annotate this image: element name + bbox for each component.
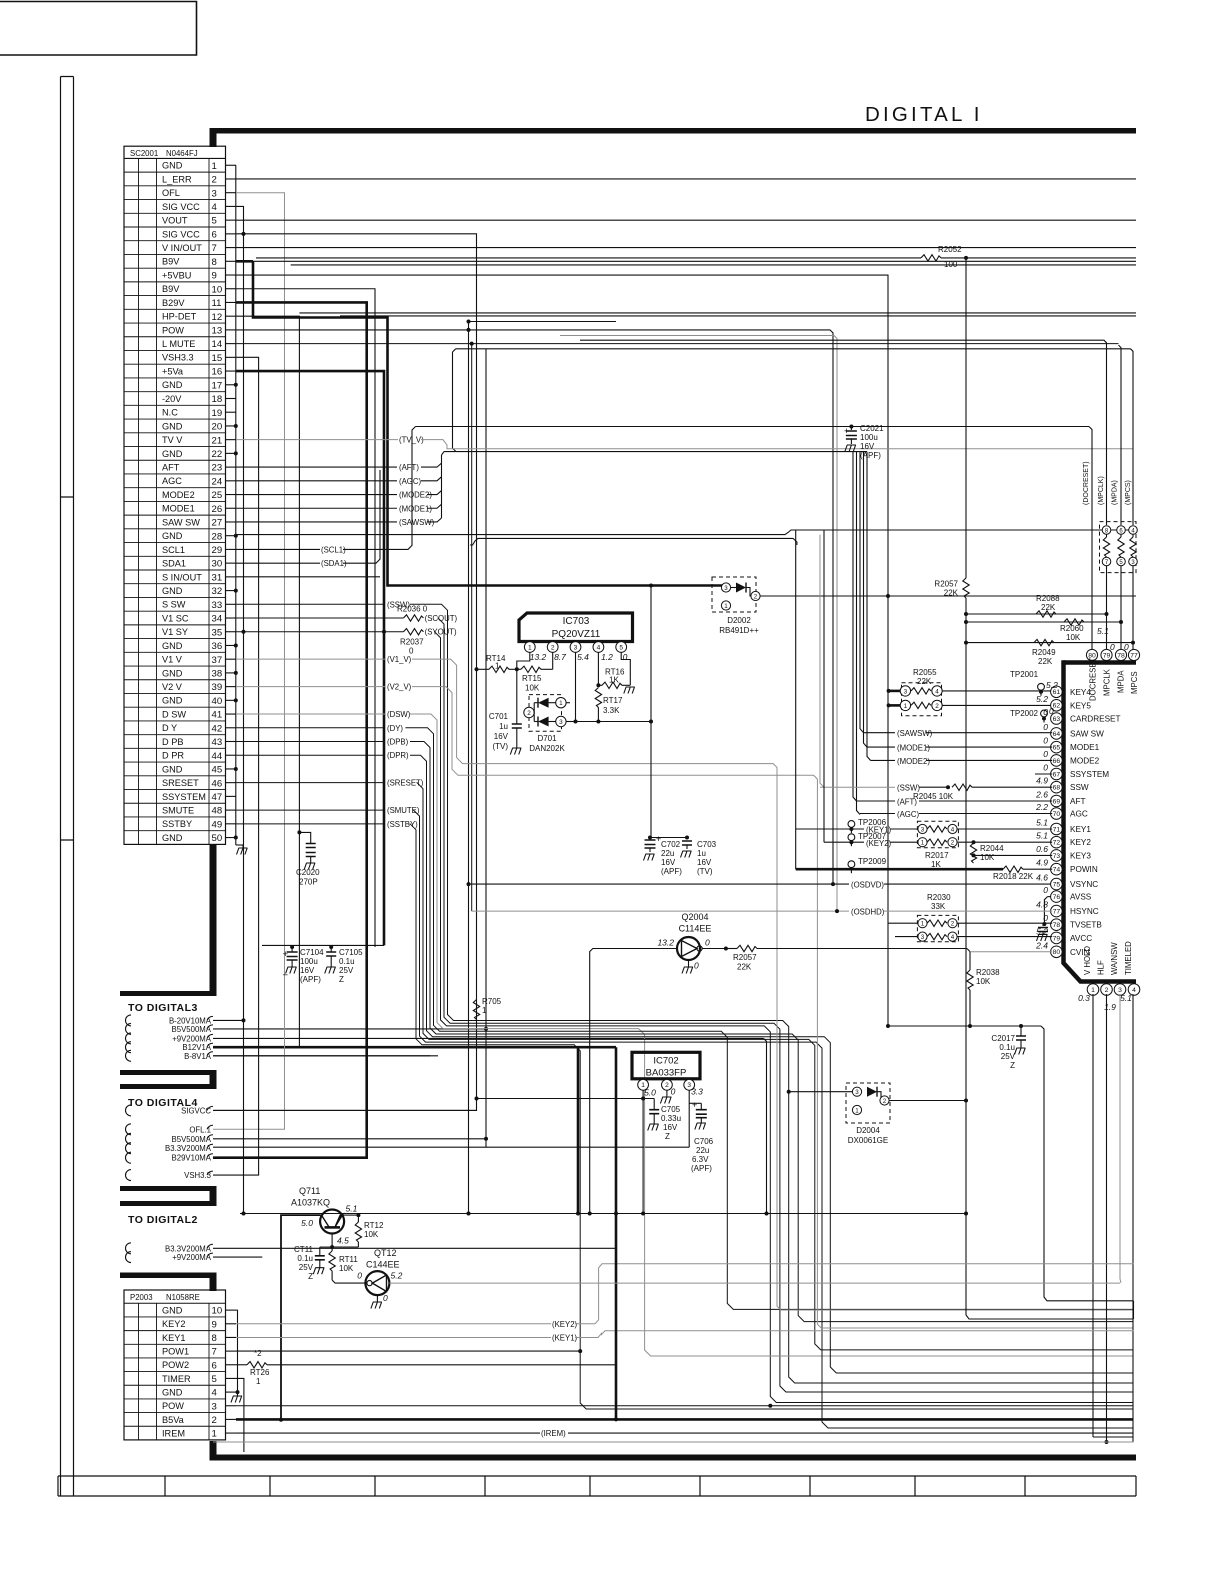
svg-text:MODE1: MODE1: [1070, 743, 1100, 752]
svg-text:−: −: [283, 970, 289, 981]
svg-text:10K: 10K: [980, 853, 995, 862]
svg-text:DX0061GE: DX0061GE: [848, 1136, 888, 1145]
svg-text:22K: 22K: [1041, 603, 1056, 612]
svg-text:64: 64: [1053, 731, 1061, 738]
svg-text:Q711: Q711: [299, 1186, 320, 1196]
svg-text:26: 26: [212, 504, 223, 515]
svg-text:TIMELED: TIMELED: [1124, 941, 1133, 975]
svg-text:TP2001: TP2001: [1010, 670, 1039, 679]
svg-text:V HOLD: V HOLD: [1083, 946, 1092, 975]
svg-text:3: 3: [212, 188, 217, 199]
svg-text:13.2: 13.2: [657, 938, 674, 948]
svg-text:SRESET: SRESET: [162, 778, 199, 788]
svg-text:R2030: R2030: [927, 893, 951, 902]
svg-text:(MPDA): (MPDA): [1112, 480, 1119, 505]
svg-text:72: 72: [1053, 840, 1061, 847]
svg-text:25V: 25V: [339, 966, 354, 975]
svg-text:1: 1: [724, 603, 728, 610]
svg-text:GND: GND: [162, 531, 183, 541]
svg-text:42: 42: [212, 723, 223, 734]
svg-text:L_ERR: L_ERR: [162, 174, 192, 184]
svg-text:19: 19: [212, 408, 223, 419]
svg-text:14: 14: [212, 339, 223, 350]
svg-text:69: 69: [1053, 798, 1061, 805]
svg-text:0: 0: [1043, 736, 1048, 746]
svg-text:10: 10: [212, 1306, 223, 1317]
svg-text:36: 36: [212, 641, 223, 652]
svg-text:AFT: AFT: [1070, 797, 1085, 806]
svg-text:(AFT): (AFT): [897, 798, 917, 807]
svg-text:2: 2: [665, 1082, 669, 1089]
svg-text:+9V200MA: +9V200MA: [172, 1034, 212, 1043]
svg-text:10K: 10K: [525, 684, 540, 693]
svg-text:0: 0: [694, 961, 699, 971]
svg-text:1: 1: [855, 1107, 859, 1114]
svg-text:D PB: D PB: [162, 737, 183, 747]
svg-text:70: 70: [1053, 811, 1061, 818]
svg-text:0.1u: 0.1u: [999, 1043, 1015, 1052]
svg-text:C2017: C2017: [991, 1034, 1015, 1043]
svg-text:AVSS: AVSS: [1070, 893, 1092, 902]
svg-text:GND: GND: [162, 1387, 183, 1397]
svg-text:R2060: R2060: [1060, 624, 1084, 633]
svg-text:2: 2: [527, 710, 531, 717]
svg-text:C114EE: C114EE: [679, 924, 712, 934]
svg-text:0: 0: [1043, 763, 1048, 773]
svg-text:1.9: 1.9: [1104, 1002, 1116, 1012]
svg-text:25V: 25V: [299, 1263, 314, 1272]
svg-text:(MODE2): (MODE2): [897, 757, 930, 766]
svg-text:Z: Z: [1010, 1061, 1015, 1070]
svg-text:5.1: 5.1: [1036, 818, 1048, 828]
svg-text:7: 7: [212, 1347, 217, 1358]
svg-text:5.2: 5.2: [1046, 680, 1058, 690]
svg-text:270P: 270P: [299, 878, 318, 887]
svg-text:1: 1: [495, 662, 500, 671]
svg-text:2.6: 2.6: [1035, 790, 1048, 800]
svg-text:V1 V: V1 V: [162, 655, 183, 665]
svg-text:5.1: 5.1: [1097, 626, 1109, 636]
svg-text:100u: 100u: [300, 957, 318, 966]
svg-text:RT15: RT15: [522, 674, 542, 683]
svg-text:9: 9: [212, 271, 217, 282]
svg-text:20: 20: [212, 422, 223, 433]
svg-text:N1058RE: N1058RE: [166, 1293, 200, 1302]
svg-text:0: 0: [409, 647, 414, 656]
svg-text:(AGC): (AGC): [897, 810, 919, 819]
svg-text:4.5: 4.5: [337, 1236, 349, 1246]
svg-text:TIMER: TIMER: [162, 1374, 191, 1384]
svg-text:KEY2: KEY2: [1070, 838, 1091, 847]
svg-text:N.C: N.C: [162, 408, 178, 418]
svg-text:DIGITAL I: DIGITAL I: [865, 103, 983, 126]
svg-text:(TV): (TV): [697, 867, 713, 876]
svg-text:5: 5: [212, 1374, 217, 1385]
svg-text:BA033FP: BA033FP: [646, 1068, 687, 1079]
svg-text:10: 10: [212, 284, 223, 295]
svg-text:67: 67: [1053, 771, 1061, 778]
svg-text:12: 12: [212, 312, 223, 323]
svg-text:10K: 10K: [976, 977, 991, 986]
svg-text:AVCC: AVCC: [1070, 934, 1092, 943]
svg-text:1: 1: [212, 1429, 217, 1440]
svg-text:3: 3: [921, 826, 925, 833]
svg-text:13.2: 13.2: [530, 652, 547, 662]
svg-text:5: 5: [619, 644, 623, 651]
svg-text:C7105: C7105: [339, 948, 363, 957]
svg-text:79: 79: [1053, 935, 1061, 942]
svg-text:3: 3: [559, 719, 563, 726]
svg-text:4.9: 4.9: [1036, 776, 1048, 786]
svg-text:16V: 16V: [860, 442, 875, 451]
svg-text:AGC: AGC: [162, 476, 182, 486]
svg-text:IREM: IREM: [162, 1428, 185, 1438]
svg-text:22K: 22K: [917, 677, 932, 686]
svg-text:C7104: C7104: [300, 948, 324, 957]
svg-text:2: 2: [951, 921, 955, 928]
svg-text:(IREM): (IREM): [541, 1429, 566, 1438]
svg-text:5.4: 5.4: [577, 652, 589, 662]
svg-text:GND: GND: [162, 1306, 183, 1316]
svg-text:0.6: 0.6: [1036, 844, 1048, 854]
svg-text:POW1: POW1: [162, 1347, 189, 1357]
svg-text:TO DIGITAL3: TO DIGITAL3: [128, 1002, 198, 1014]
svg-text:(AFT): (AFT): [399, 463, 419, 472]
svg-text:0: 0: [1043, 885, 1048, 895]
svg-text:35: 35: [212, 627, 223, 638]
svg-text:10K: 10K: [364, 1230, 379, 1239]
svg-text:(SCL1): (SCL1): [321, 545, 346, 554]
svg-text:S SW: S SW: [162, 600, 186, 610]
svg-text:MODE2: MODE2: [1070, 756, 1100, 765]
svg-text:0: 0: [357, 1271, 362, 1281]
svg-text:V IN/OUT: V IN/OUT: [162, 243, 202, 253]
svg-text:4.8: 4.8: [1036, 900, 1048, 910]
svg-text:0.1u: 0.1u: [339, 957, 355, 966]
svg-text:R2049: R2049: [1032, 648, 1056, 657]
svg-text:VSH3.3: VSH3.3: [162, 353, 194, 363]
svg-text:32: 32: [212, 586, 223, 597]
svg-text:100u: 100u: [860, 433, 878, 442]
svg-text:39: 39: [212, 682, 223, 693]
svg-text:(DOCRESET): (DOCRESET): [1083, 461, 1090, 505]
svg-text:QT12: QT12: [374, 1248, 397, 1258]
svg-text:(SYOUT): (SYOUT): [425, 628, 457, 637]
svg-text:B5V500MA: B5V500MA: [172, 1025, 212, 1034]
svg-text:CT11: CT11: [294, 1245, 314, 1254]
svg-text:4: 4: [951, 826, 955, 833]
svg-text:(KEY2): (KEY2): [552, 1320, 578, 1329]
svg-text:1: 1: [904, 703, 908, 710]
svg-text:5.0: 5.0: [644, 1088, 656, 1098]
svg-text:18: 18: [212, 394, 223, 405]
svg-text:GND: GND: [162, 380, 183, 390]
svg-text:1: 1: [921, 921, 925, 928]
svg-text:B3.3V200MA: B3.3V200MA: [165, 1144, 212, 1153]
svg-text:16V: 16V: [663, 1123, 678, 1132]
svg-text:OFL: OFL: [162, 188, 180, 198]
svg-text:49: 49: [212, 819, 223, 830]
svg-text:Z: Z: [339, 975, 344, 984]
svg-text:34: 34: [212, 614, 223, 625]
svg-text:(MODE1): (MODE1): [897, 744, 930, 753]
svg-text:16: 16: [212, 367, 223, 378]
svg-text:3: 3: [724, 585, 728, 592]
svg-text:4: 4: [935, 688, 939, 695]
svg-text:6: 6: [212, 1360, 217, 1371]
svg-text:2: 2: [551, 644, 555, 651]
svg-text:DAN202K: DAN202K: [529, 744, 565, 753]
svg-text:GND: GND: [162, 668, 183, 678]
svg-text:SIG VCC: SIG VCC: [162, 202, 200, 212]
svg-text:R2055: R2055: [913, 668, 937, 677]
svg-text:AGC: AGC: [1070, 810, 1088, 819]
svg-text:71: 71: [1053, 826, 1061, 833]
svg-text:R2057: R2057: [934, 580, 958, 589]
svg-text:B5V500MA: B5V500MA: [172, 1135, 212, 1144]
svg-text:C702: C702: [661, 840, 681, 849]
svg-text:1: 1: [559, 700, 563, 707]
svg-text:SC2001: SC2001: [130, 149, 158, 158]
svg-text:78: 78: [1117, 652, 1125, 659]
svg-text:40: 40: [212, 696, 223, 707]
svg-text:(OSDHD): (OSDHD): [851, 907, 885, 916]
svg-text:B9V: B9V: [162, 284, 180, 294]
svg-text:6: 6: [212, 229, 217, 240]
svg-text:SMUTE: SMUTE: [162, 806, 194, 816]
svg-text:Z: Z: [665, 1132, 670, 1141]
svg-text:MODE1: MODE1: [162, 504, 195, 514]
svg-text:SSYSTEM: SSYSTEM: [1070, 770, 1109, 779]
svg-text:46: 46: [212, 778, 223, 789]
svg-text:2.2: 2.2: [1035, 802, 1048, 812]
svg-text:D PR: D PR: [162, 751, 184, 761]
svg-text:C144EE: C144EE: [366, 1260, 400, 1270]
svg-text:25V: 25V: [1001, 1052, 1016, 1061]
svg-text:1K: 1K: [609, 676, 619, 685]
svg-text:R2037: R2037: [400, 638, 424, 647]
svg-text:78: 78: [1053, 922, 1061, 929]
svg-text:GND: GND: [162, 586, 183, 596]
svg-text:5.1: 5.1: [1036, 831, 1048, 841]
svg-text:45: 45: [212, 765, 223, 776]
svg-text:TP2007: TP2007: [858, 832, 887, 841]
svg-text:TO DIGITAL2: TO DIGITAL2: [128, 1214, 198, 1226]
svg-text:27: 27: [212, 518, 223, 529]
svg-text:28: 28: [212, 531, 223, 542]
svg-text:2: 2: [951, 840, 955, 847]
svg-text:+5Va: +5Va: [162, 366, 184, 376]
svg-text:RT12: RT12: [364, 1221, 384, 1230]
svg-text:GND: GND: [162, 696, 183, 706]
svg-text:22u: 22u: [696, 1146, 709, 1155]
svg-text:22K: 22K: [944, 589, 959, 598]
svg-text:0: 0: [383, 1293, 388, 1303]
svg-text:IC703: IC703: [563, 616, 590, 627]
svg-text:SAW SW: SAW SW: [1070, 729, 1104, 738]
svg-text:48: 48: [212, 806, 223, 817]
svg-text:POWIN: POWIN: [1070, 865, 1098, 874]
svg-text:16V: 16V: [697, 858, 712, 867]
svg-text:(MPCS): (MPCS): [1125, 480, 1132, 505]
svg-text:68: 68: [1053, 785, 1061, 792]
svg-text:TVSETB: TVSETB: [1070, 921, 1102, 930]
svg-text:16V: 16V: [300, 966, 315, 975]
svg-text:KEY2: KEY2: [162, 1319, 186, 1329]
svg-text:4: 4: [212, 1388, 218, 1399]
svg-text:8: 8: [212, 1333, 217, 1344]
svg-text:9: 9: [212, 1319, 217, 1330]
svg-text:(DSW): (DSW): [387, 710, 411, 719]
svg-text:(TV): (TV): [492, 742, 508, 751]
svg-text:30: 30: [212, 559, 223, 570]
svg-text:D SW: D SW: [162, 709, 186, 719]
svg-text:5: 5: [212, 216, 217, 227]
svg-text:+5VBU: +5VBU: [162, 270, 191, 280]
svg-text:11: 11: [212, 298, 222, 309]
svg-text:(V2_V): (V2_V): [387, 683, 412, 692]
svg-text:(MPCLK): (MPCLK): [1098, 476, 1105, 505]
svg-text:SIGVCC: SIGVCC: [181, 1106, 211, 1115]
svg-text:D701: D701: [537, 734, 557, 743]
svg-text:D2002: D2002: [727, 616, 751, 625]
svg-text:R705: R705: [482, 997, 502, 1006]
svg-text:10K: 10K: [1066, 633, 1081, 642]
svg-text:B5Va: B5Va: [162, 1415, 185, 1425]
svg-text:66: 66: [1053, 758, 1061, 765]
svg-text:3.3K: 3.3K: [603, 706, 620, 715]
svg-text:P2003: P2003: [130, 1293, 153, 1302]
svg-text:61: 61: [1053, 689, 1061, 696]
svg-text:R2057: R2057: [733, 953, 757, 962]
svg-text:(V1_V): (V1_V): [387, 655, 412, 664]
svg-text:R2036 0: R2036 0: [397, 605, 428, 614]
svg-text:HP-DET: HP-DET: [162, 312, 197, 322]
svg-text:GND: GND: [162, 421, 183, 431]
svg-text:TP2006: TP2006: [858, 818, 887, 827]
svg-text:B29V: B29V: [162, 298, 185, 308]
svg-text:KEY1: KEY1: [162, 1333, 186, 1343]
svg-text:4: 4: [597, 644, 601, 651]
svg-text:C701: C701: [489, 712, 509, 721]
svg-text:AFT: AFT: [162, 463, 180, 473]
svg-text:7: 7: [212, 243, 217, 254]
svg-text:(KEY1): (KEY1): [552, 1333, 578, 1342]
svg-text:RT17: RT17: [603, 696, 623, 705]
svg-text:KEY3: KEY3: [1070, 851, 1091, 860]
svg-text:0: 0: [623, 652, 628, 662]
svg-text:VSH3.3: VSH3.3: [184, 1171, 211, 1180]
svg-text:5.2: 5.2: [1036, 694, 1048, 704]
svg-text:R2044: R2044: [980, 844, 1004, 853]
svg-text:0.33u: 0.33u: [661, 1114, 681, 1123]
svg-text:(DY): (DY): [387, 724, 403, 733]
svg-text:C2021: C2021: [860, 424, 884, 433]
svg-text:TP2009: TP2009: [858, 857, 887, 866]
svg-text:2: 2: [935, 703, 939, 710]
svg-text:R2045 10K: R2045 10K: [913, 792, 954, 801]
svg-text:16V: 16V: [494, 732, 509, 741]
svg-text:1u: 1u: [499, 722, 508, 731]
svg-text:PQ20VZ11: PQ20VZ11: [552, 629, 601, 640]
svg-text:47: 47: [212, 792, 223, 803]
svg-text:A1037KQ: A1037KQ: [291, 1198, 330, 1208]
svg-text:1: 1: [921, 840, 925, 847]
svg-text:23: 23: [212, 463, 223, 474]
svg-text:+9V200MA: +9V200MA: [172, 1253, 212, 1262]
svg-text:0: 0: [1043, 749, 1048, 759]
svg-text:(SMUTE): (SMUTE): [387, 806, 420, 815]
svg-text:B3.3V200MA: B3.3V200MA: [165, 1244, 212, 1253]
svg-text:RB491D++: RB491D++: [719, 626, 759, 635]
svg-text:GND: GND: [162, 161, 183, 171]
svg-text:21: 21: [212, 435, 223, 446]
svg-text:0.1u: 0.1u: [297, 1254, 313, 1263]
svg-text:RT11: RT11: [339, 1255, 358, 1264]
svg-text:1: 1: [1091, 987, 1095, 994]
svg-text:17: 17: [212, 380, 223, 391]
svg-text:HSYNC: HSYNC: [1070, 907, 1099, 916]
svg-text:2: 2: [883, 1098, 887, 1105]
svg-text:MPCLK: MPCLK: [1103, 668, 1112, 696]
svg-text:77: 77: [1053, 909, 1061, 916]
svg-text:79: 79: [1103, 652, 1111, 659]
svg-text:RT26: RT26: [250, 1368, 270, 1377]
svg-text:1.2: 1.2: [601, 652, 613, 662]
svg-text:GND: GND: [162, 449, 183, 459]
svg-text:KEY5: KEY5: [1070, 701, 1091, 710]
svg-text:MPDA: MPDA: [1117, 670, 1126, 693]
svg-text:D2004: D2004: [856, 1126, 880, 1135]
svg-text:16V: 16V: [661, 858, 676, 867]
svg-text:R2017: R2017: [925, 851, 949, 860]
svg-text:5.1: 5.1: [346, 1204, 358, 1214]
svg-text:(SRESET): (SRESET): [387, 779, 424, 788]
svg-text:GND: GND: [162, 764, 183, 774]
svg-text:SSTBY: SSTBY: [162, 819, 192, 829]
svg-text:SSW: SSW: [1070, 783, 1089, 792]
svg-text:SCL1: SCL1: [162, 545, 185, 555]
svg-text:6.3V: 6.3V: [692, 1155, 709, 1164]
svg-text:15: 15: [212, 353, 223, 364]
svg-text:B9V: B9V: [162, 257, 180, 267]
svg-text:4.9: 4.9: [1036, 858, 1048, 868]
svg-text:B-8V1A: B-8V1A: [184, 1052, 212, 1061]
svg-text:R2088: R2088: [1036, 594, 1060, 603]
svg-text:D Y: D Y: [162, 723, 177, 733]
svg-text:37: 37: [212, 655, 223, 666]
svg-text:31: 31: [212, 572, 223, 583]
svg-text:0: 0: [1049, 706, 1054, 716]
svg-text:5.1: 5.1: [1120, 993, 1132, 1003]
svg-text:*2: *2: [254, 1349, 262, 1358]
svg-text:0: 0: [1043, 722, 1048, 732]
svg-text:33K: 33K: [931, 902, 946, 911]
svg-text:50: 50: [212, 833, 223, 844]
svg-text:4: 4: [951, 934, 955, 941]
svg-text:75: 75: [1053, 882, 1061, 889]
svg-text:VSYNC: VSYNC: [1070, 880, 1098, 889]
svg-text:63: 63: [1053, 716, 1061, 723]
svg-text:V1 SY: V1 SY: [162, 627, 188, 637]
svg-text:2: 2: [1105, 987, 1109, 994]
svg-text:(DPB): (DPB): [387, 738, 409, 747]
svg-text:(APF): (APF): [661, 867, 682, 876]
svg-text:2: 2: [212, 175, 217, 186]
svg-text:MODE2: MODE2: [162, 490, 195, 500]
svg-text:0: 0: [1110, 642, 1115, 652]
svg-text:1: 1: [212, 161, 217, 172]
